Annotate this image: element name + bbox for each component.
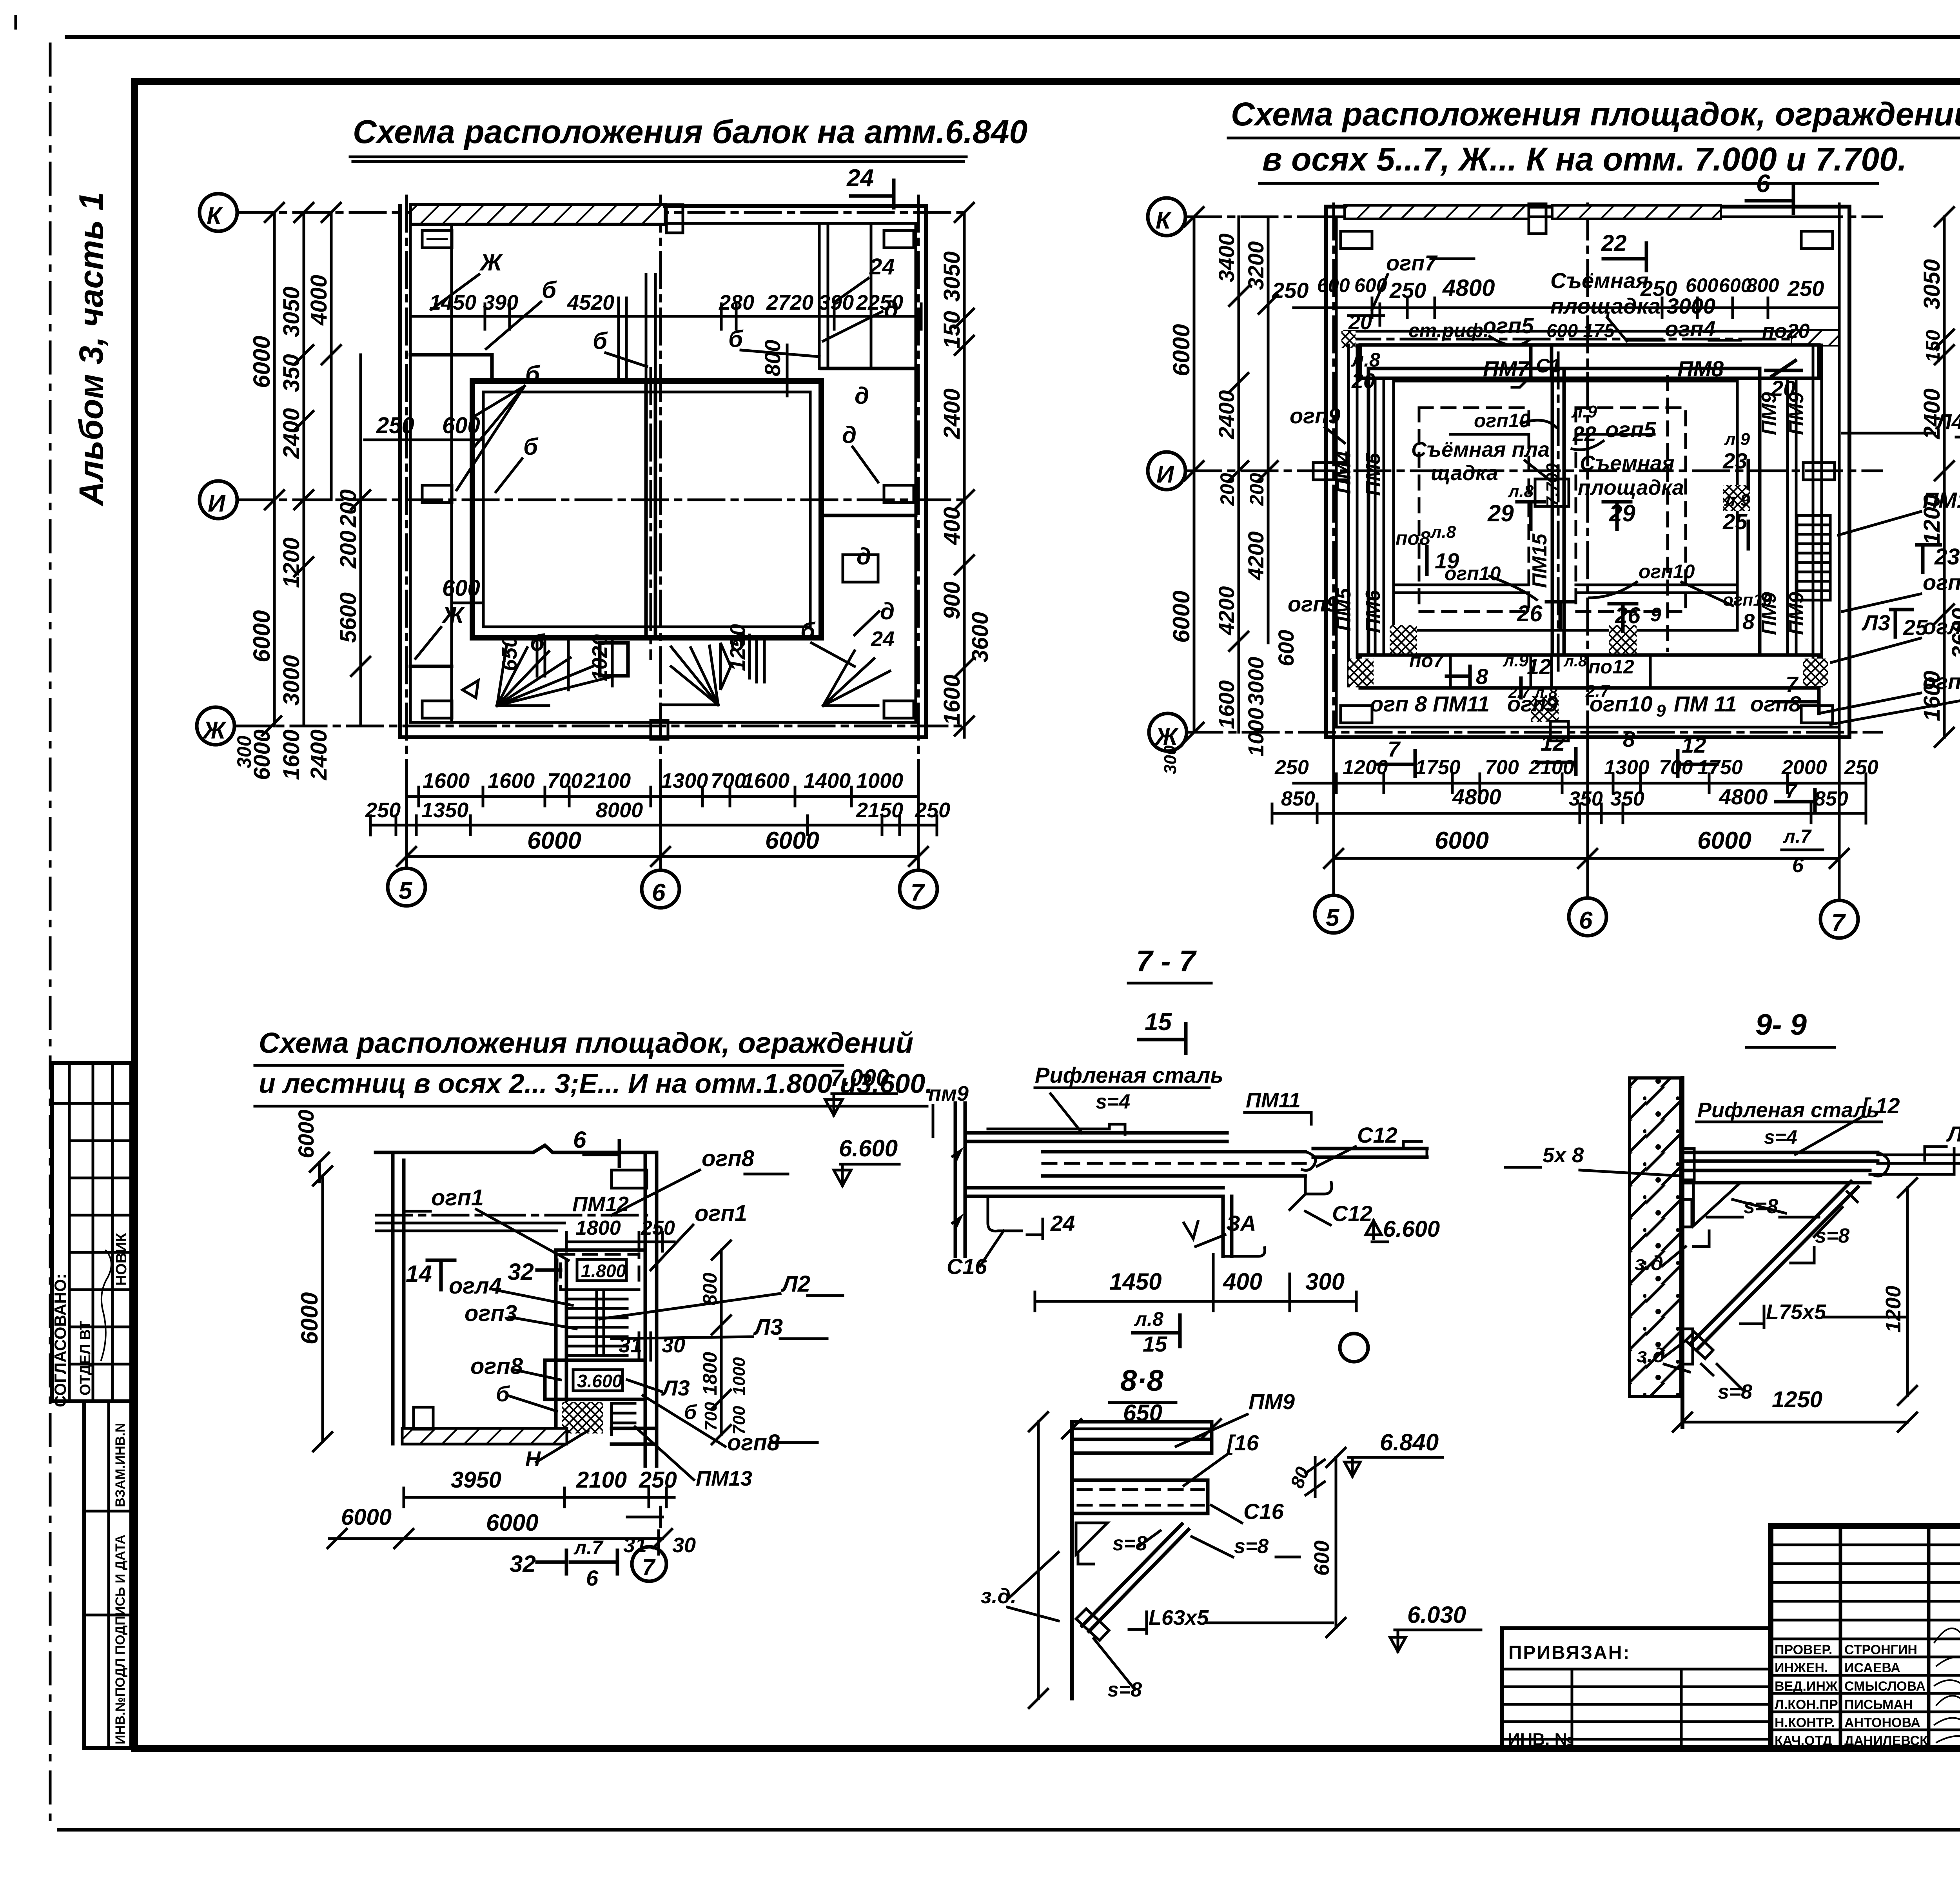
inner left wall line [450,224,453,722]
svg-text:23: 23 [1934,544,1960,570]
svg-text:29: 29 [1487,500,1514,526]
floor top plates [965,1133,1227,1141]
stair fan bottom-middle [662,646,718,705]
svg-text:3050: 3050 [1919,259,1945,310]
svg-text:L63x5: L63x5 [1149,1606,1209,1629]
svg-text:л.8: л.8 [1351,349,1380,371]
svg-text:200: 200 [1246,473,1268,506]
svg-text:650: 650 [498,636,521,671]
stair Л3 rungs [1797,515,1830,600]
svg-text:800: 800 [760,340,785,376]
svg-text:7: 7 [642,1555,656,1580]
svg-text:3.600: 3.600 [577,1371,622,1391]
weld corner mark [1078,1555,1094,1564]
axis circle 6 [642,870,679,908]
svg-text:з.д: з.д [1635,1252,1663,1275]
svg-text:огл4: огл4 [449,1273,502,1299]
bottom wall segment right [612,1428,657,1444]
svg-text:12: 12 [1527,654,1551,679]
wall vertical line [1070,1422,1074,1698]
svg-text:350: 350 [1569,788,1603,810]
bottom door post [651,720,668,739]
svg-text:14: 14 [406,1261,432,1287]
svg-text:2400: 2400 [1919,388,1945,439]
svg-text:6000: 6000 [341,1504,392,1530]
inner ring inner rect [1394,381,1737,630]
svg-text:4520: 4520 [567,291,614,314]
svg-text:Л.КОН.ПР: Л.КОН.ПР [1775,1697,1838,1712]
svg-text:5x 8: 5x 8 [1543,1143,1584,1167]
svg-text:1000: 1000 [1243,708,1268,757]
svg-text:л.9: л.9 [1724,430,1750,449]
bottom-middle arrow spike [720,643,731,690]
axis circle K [200,194,237,231]
top wall hatched band [410,205,665,224]
small equip box bottom-centre [600,643,628,676]
svg-text:1200: 1200 [1343,756,1388,779]
svg-text:ПМ12: ПМ12 [572,1192,629,1216]
svg-text:20: 20 [1348,310,1372,334]
svg-text:250: 250 [1272,278,1308,303]
svg-text:390: 390 [483,291,518,314]
walkway band ПМ7-ПМ8 [1360,345,1819,378]
upper walkway dash-dot line огп5-огп4 [1345,338,1838,341]
svg-text:2100: 2100 [576,1467,627,1493]
svg-text:ПМ8: ПМ8 [1677,356,1724,381]
right wall double [645,1152,657,1466]
svg-text:1600: 1600 [279,729,304,780]
svg-text:300: 300 [1161,745,1180,774]
svg-text:4800: 4800 [1442,275,1495,301]
svg-text:6000: 6000 [1168,324,1194,376]
elevation box 1.800 [577,1259,626,1281]
svg-text:700: 700 [730,1406,749,1435]
beam б at x2090 [819,224,828,368]
stair fan arrow bottom-left [463,680,478,698]
axis circle 7 [900,870,937,908]
svg-text:1450: 1450 [1109,1268,1161,1295]
svg-text:3050: 3050 [279,287,304,337]
svg-text:2150: 2150 [856,798,903,822]
svg-text:24: 24 [1050,1211,1075,1236]
svg-text:6000: 6000 [1168,591,1194,643]
svg-text:700: 700 [547,769,583,793]
left change-table columns [1840,1526,1960,1748]
svg-text:30: 30 [662,1334,685,1357]
svg-text:щадка: щадка [1431,461,1498,485]
svg-text:300: 300 [1305,1268,1345,1295]
svg-text:1600: 1600 [742,769,789,793]
svg-text:Н: Н [525,1447,541,1471]
svg-text:22: 22 [1572,422,1596,446]
beam bracket bottom-right [884,701,914,718]
svg-text:600 175: 600 175 [1546,321,1615,341]
svg-text:Съемная: Съемная [1580,452,1675,475]
svg-text:б: б [496,1381,510,1406]
sheet outer left fold dash-dot line [49,44,52,1830]
tank centre dash-dot [650,368,652,659]
tank outer rectangle [472,381,821,638]
bottom band posts [1450,655,1650,688]
svg-text:л.9: л.9 [1571,402,1597,421]
gusset triangle [1076,1523,1107,1554]
cross-hatch patch [562,1402,603,1433]
svg-text:[ 12: [ 12 [1861,1093,1900,1118]
svg-text:20: 20 [1351,369,1375,393]
wall posts top corners [1341,231,1372,249]
svg-text:4200: 4200 [1214,586,1239,635]
svg-text:400: 400 [939,507,965,545]
svg-text:ОТДЕЛ ВТ: ОТДЕЛ ВТ [77,1321,94,1395]
svg-text:ВЕД.ИНЖ: ВЕД.ИНЖ [1775,1679,1838,1694]
svg-text:26: 26 [1517,601,1543,626]
svg-text:4800: 4800 [1452,784,1501,809]
top wall hatch segments [1345,205,1529,219]
svg-text:2250: 2250 [856,291,903,314]
svg-text:Рифленая сталь: Рифленая сталь [1035,1063,1223,1087]
svg-text:30: 30 [672,1533,696,1557]
bottom wall double line [400,735,926,739]
svg-text:8: 8 [1742,609,1755,634]
svg-text:9: 9 [1650,604,1661,626]
svg-text:огп9: огп9 [1288,592,1338,616]
name rows [1771,1657,1960,1730]
svg-text:6: 6 [652,879,666,906]
svg-text:6000: 6000 [249,610,275,662]
svg-text:600: 600 [1354,274,1387,296]
right room wall x2222 [870,224,873,368]
lower anchor plate [1682,1329,1693,1364]
left dim line vertical [1029,1412,1048,1708]
elevation box 3.600 [573,1370,622,1391]
svg-text:400: 400 [1223,1268,1262,1295]
svg-text:1300: 1300 [1604,756,1650,779]
svg-text:ПМ13: ПМ13 [696,1467,752,1490]
svg-text:s=8: s=8 [1234,1535,1269,1558]
svg-text:2400: 2400 [306,729,332,780]
small post bottom-left [414,1407,433,1429]
anchor plate on wall [1682,1149,1694,1227]
right dim column [955,203,974,737]
svg-text:6.840: 6.840 [1380,1429,1439,1455]
svg-text:250: 250 [915,798,950,822]
axis 5 vertical [1332,204,1335,896]
svg-text:б: б [530,630,545,656]
tank inner rectangle [483,392,810,627]
svg-text:1400: 1400 [804,769,851,793]
svg-text:1250: 1250 [726,624,750,671]
empty circle [1340,1334,1368,1362]
svg-text:6000: 6000 [1697,827,1751,854]
svg-text:12: 12 [1682,733,1706,757]
svg-text:Ж: Ж [202,717,227,744]
svg-text:7: 7 [911,879,925,906]
svg-text:1450: 1450 [429,291,476,314]
svg-text:1600: 1600 [423,769,470,793]
svg-text:5600: 5600 [336,592,361,643]
svg-text:по12: по12 [1588,656,1634,678]
hatch patch right walkway [1791,330,1838,346]
svg-text:з.д: з.д [1637,1344,1665,1367]
removable platform right dashed [1576,408,1686,611]
axis Ж line [234,725,968,728]
svg-text:850: 850 [1281,788,1315,810]
svg-text:6: 6 [1756,169,1770,198]
svg-text:1.800: 1.800 [581,1261,626,1281]
axis circle 5 [388,868,425,906]
svg-text:8·8: 8·8 [1120,1364,1164,1397]
svg-text:ПМ 11: ПМ 11 [1674,691,1737,716]
svg-text:700: 700 [1485,756,1519,779]
beam bracket at И axis [422,485,452,503]
svg-text:огп10: огп10 [1590,691,1653,716]
svg-text:б: б [542,277,557,303]
svg-text:250: 250 [1640,276,1677,301]
svg-text:д: д [880,598,895,624]
left stamp upper table [51,1063,131,1407]
svg-text:Л3: Л3 [1861,610,1890,635]
svg-text:150: 150 [1922,330,1944,363]
plan 2 outer walls [1326,207,1849,737]
svg-text:по7: по7 [1409,650,1445,671]
svg-text:Альбом 3, часть 1: Альбом 3, часть 1 [73,192,110,506]
svg-text:4000: 4000 [306,275,332,326]
svg-text:К: К [1156,207,1172,234]
svg-text:2100: 2100 [1528,756,1574,779]
svg-text:Схема расположения площадок, о: Схема расположения площадок, ограждений [259,1027,913,1059]
svg-text:6: 6 [1579,907,1593,934]
svg-text:2100: 2100 [583,769,631,793]
svg-text:1800: 1800 [699,1352,721,1395]
upper landing dash-dot box [561,1254,639,1290]
svg-text:ИНЖЕН.: ИНЖЕН. [1775,1660,1828,1675]
svg-text:6.600: 6.600 [839,1135,898,1161]
svg-text:6.030: 6.030 [1407,1602,1466,1628]
svg-text:24: 24 [869,254,895,279]
dashed long vertical right [1666,376,1669,651]
svg-text:огп3: огп3 [465,1301,517,1326]
svg-text:л.8: л.8 [1134,1308,1163,1330]
svg-text:6: 6 [573,1127,586,1153]
right rooms divider horizontal 1 [821,367,916,370]
svg-text:Л3: Л3 [753,1314,783,1340]
plan 3 top wall line with break [376,1145,657,1152]
svg-text:С1: С1 [1536,355,1561,377]
C16 shelf below [988,1196,1022,1231]
svg-text:600: 600 [442,575,480,601]
svg-text:150: 150 [939,311,965,349]
svg-text:6.600: 6.600 [1383,1216,1440,1242]
left vertical dim 6000 [313,1167,332,1451]
svg-text:огп1: огп1 [1923,570,1960,595]
svg-text:огп9: огп9 [1290,403,1340,428]
hatch patch left of walkway [1341,331,1356,348]
axis K line [237,211,968,214]
svg-text:огп 8: огп 8 [1370,691,1427,716]
svg-text:3000: 3000 [1243,657,1268,706]
brace seat bottom [1076,1609,1109,1640]
svg-text:[16: [16 [1226,1430,1259,1455]
svg-text:пм9: пм9 [928,1082,969,1105]
stair shaft walls [556,1250,645,1444]
right hook С12 lower [1290,1176,1332,1210]
svg-text:24: 24 [846,165,874,192]
left change-table thin rows [1771,1545,1960,1639]
left wall double [393,1152,404,1444]
svg-text:ПМ7: ПМ7 [1483,356,1530,381]
top wall door post [666,205,683,233]
left dim columns [1194,217,1268,732]
svg-text:ЛМН: ЛМН [1946,1121,1960,1146]
привязан box [1502,1628,1771,1748]
floor plate top [1682,1152,1878,1183]
svg-text:1800: 1800 [575,1217,621,1239]
right plate continue [1313,1149,1427,1157]
svg-text:б: б [684,1401,697,1424]
svg-text:огп1: огп1 [695,1201,747,1226]
svg-text:29: 29 [1609,500,1635,526]
svg-text:1000: 1000 [730,1357,749,1395]
svg-text:3000: 3000 [279,655,304,706]
concrete wall [1630,1078,1681,1397]
svg-text:26: 26 [1615,603,1641,628]
svg-text:1600: 1600 [1214,680,1239,729]
channel C12 dashed body [1043,1152,1305,1176]
bracket under plate [1693,1183,1740,1247]
svg-text:л.7: л.7 [573,1537,604,1559]
svg-text:огп4: огп4 [1665,316,1715,341]
svg-text:6000: 6000 [249,336,275,388]
diagonal brace L75x5 [1690,1181,1858,1349]
svg-text:250: 250 [1844,756,1878,779]
svg-text:s=4: s=4 [1764,1126,1797,1148]
svg-text:ст.риф.: ст.риф. [1408,319,1489,341]
signatures squiggles [1935,1623,1960,1742]
lower interior ledge [410,665,452,668]
svg-text:3950: 3950 [451,1467,501,1493]
svg-text:Ж: Ж [479,249,503,276]
svg-text:600: 600 [1274,630,1298,666]
wall left vertical double [955,1103,965,1256]
svg-text:И: И [208,490,226,517]
svg-text:15: 15 [1143,1332,1167,1356]
right rotated dims [712,1241,731,1444]
svg-text:д: д [855,383,869,409]
svg-text:8000: 8000 [596,798,643,822]
sheet outer top border line [67,35,1960,39]
svg-text:л.8: л.8 [1430,523,1456,542]
svg-text:площадка: площадка [1578,476,1684,499]
sheet outer bottom border line [59,1828,1960,1832]
svg-text:Съёмная: Съёмная [1550,268,1649,293]
svg-text:600: 600 [1310,1541,1334,1576]
svg-text:СТРОНГИН: СТРОНГИН [1844,1642,1917,1657]
stair fan bottom-left [497,646,612,706]
svg-text:1020: 1020 [588,634,612,681]
removable platform left dashed [1419,408,1529,611]
left dim column lines [274,212,361,726]
svg-text:600: 600 [1317,274,1350,296]
svg-text:4800: 4800 [1719,784,1768,809]
bottom centre door post [1550,721,1568,741]
axis 6 vertical line [659,196,662,870]
svg-text:350: 350 [279,354,304,392]
svg-text:л.7: л.7 [1783,826,1812,847]
svg-text:600: 600 [1686,274,1719,296]
beam bracket top-left [422,230,452,248]
svg-text:3400: 3400 [1214,233,1239,282]
axis И line [237,499,968,501]
svg-text:2400: 2400 [1214,390,1239,439]
wall face line [1681,1078,1684,1427]
right dim column [1935,207,1954,747]
beam б top middle double line [646,274,655,381]
svg-text:12: 12 [1541,731,1565,755]
label 14 T mark [427,1260,455,1290]
svg-text:Ж: Ж [441,602,465,628]
beam stubs below tank [537,638,764,690]
cross-hatch patches [1390,625,1417,653]
svg-text:700: 700 [711,769,746,793]
svg-text:б: б [800,618,816,644]
svg-text:1600: 1600 [939,675,965,725]
svg-text:огп1: огп1 [431,1185,484,1210]
svg-text:ПМ11: ПМ11 [1246,1089,1301,1112]
svg-text:1600: 1600 [1919,671,1945,721]
stair fan bottom-right [823,651,890,706]
svg-text:20: 20 [1771,376,1795,401]
svg-text:15: 15 [1145,1009,1172,1036]
svg-text:6000: 6000 [486,1510,538,1536]
svg-text:Н.КОНТР.: Н.КОНТР. [1775,1715,1835,1730]
top wall right part [665,204,926,208]
svg-text:1200: 1200 [1919,494,1945,545]
svg-text:1000: 1000 [856,769,903,793]
bottom inner band [1360,655,1819,688]
svg-text:250: 250 [639,1467,677,1493]
svg-text:в осях 5...7, Ж... К на отм. 7: в осях 5...7, Ж... К на отм. 7.000 и 7.7… [1262,141,1907,178]
svg-text:9: 9 [1656,701,1666,720]
centre divider double [1552,368,1564,655]
svg-text:ПИСЬМАН: ПИСЬМАН [1844,1697,1913,1712]
svg-text:по20: по20 [1762,320,1809,343]
right room box д [843,555,878,582]
svg-text:л.9: л.9 [1503,651,1529,670]
axis circle 7 [632,1547,666,1581]
svg-text:огп5: огп5 [1605,417,1656,442]
left wall double line [398,206,402,737]
svg-text:ПМ9: ПМ9 [1785,592,1808,635]
svg-text:2400: 2400 [939,388,965,439]
svg-text:С12: С12 [1332,1201,1372,1226]
svg-text:1200: 1200 [279,537,304,588]
svg-text:8: 8 [1476,664,1488,689]
axis circle Ж [197,707,234,745]
diagonal brace 63x5 [1082,1524,1189,1631]
svg-text:250: 250 [376,413,414,438]
lower flange [965,1188,1223,1196]
svg-text:л.8: л.8 [1563,653,1587,670]
svg-text:Рифленая сталь: Рифленая сталь [1697,1098,1879,1122]
svg-text:Л2: Л2 [780,1271,810,1297]
svg-text:6000: 6000 [527,827,581,854]
axis 7 vertical [1838,204,1841,900]
svg-text:АНТОНОВА: АНТОНОВА [1844,1715,1920,1730]
svg-text:огп10: огп10 [1639,561,1695,582]
bottom hatched walkway [402,1428,567,1444]
svg-text:С16: С16 [1243,1499,1284,1524]
svg-text:6000: 6000 [294,1109,318,1158]
